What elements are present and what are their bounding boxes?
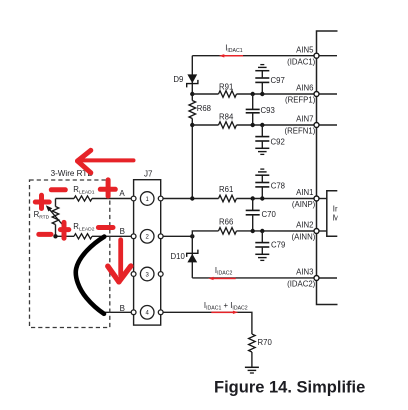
svg-text:R61: R61 [219, 185, 233, 194]
svg-text:AIN1: AIN1 [296, 188, 313, 197]
label I_IDAC1 + I_IDAC2 [204, 301, 248, 311]
annotation red plus left of RLEAD2 [60, 222, 68, 238]
ground above C78 [255, 169, 269, 175]
label node B [120, 227, 125, 236]
pin AIN3 [287, 268, 319, 289]
label C70 [262, 210, 277, 219]
capacitor C70 [246, 199, 260, 232]
node junction RTD bottom [53, 234, 57, 238]
label C93 [261, 106, 275, 115]
label R68 [197, 104, 211, 113]
3-wire RTD dashed box [30, 180, 110, 328]
ground below R70 [245, 367, 259, 373]
svg-text:(IDAC1): (IDAC1) [287, 57, 316, 66]
node junction bus/AIN1 row [190, 196, 194, 200]
J7 pin 3 [131, 267, 163, 281]
label R61 [219, 185, 233, 194]
J7 pin 4 [131, 306, 163, 320]
node junctions C columns AIN1 row [251, 196, 265, 200]
svg-text:J7: J7 [144, 170, 153, 179]
svg-text:B: B [120, 304, 125, 313]
wire AIN6 row [192, 93, 314, 95]
resistor RLEAD1 [74, 196, 92, 201]
wire pin4 row left (B bottom) [103, 311, 134, 313]
label D10 [171, 252, 186, 261]
diode D9 [187, 74, 198, 87]
wire R70 to ground [251, 352, 253, 367]
svg-text:(REFP1): (REFP1) [285, 96, 316, 105]
node junctions C columns AIN2 row [251, 229, 265, 233]
label R91 [219, 83, 233, 92]
resistor R66 [219, 228, 237, 235]
capacitor C97 [255, 71, 269, 94]
wire IDAC1 top horizontal [192, 55, 314, 57]
svg-text:AIN6: AIN6 [296, 84, 313, 93]
annotation black curve (B to B link) [76, 237, 105, 314]
svg-text:IIDAC1 + IIDAC2: IIDAC1 + IIDAC2 [204, 301, 248, 311]
annotation red down arrow at J7 pin3 [108, 240, 131, 282]
label internal mux [333, 205, 340, 223]
label RLEAD1 [73, 185, 94, 195]
svg-text:RRTD: RRTD [34, 210, 50, 220]
annotation red minus near RLEAD1 [51, 187, 65, 192]
svg-text:C92: C92 [271, 138, 285, 147]
svg-text:IIDAC1: IIDAC1 [225, 44, 243, 54]
label R66 [219, 217, 233, 226]
wire AIN1 row left segment [56, 198, 134, 200]
svg-text:AIN5: AIN5 [296, 45, 314, 54]
node junctions C columns AIN7 row [251, 123, 265, 127]
capacitor C93 [246, 94, 260, 125]
wire RRTD bottom [55, 225, 57, 237]
annotation red plus near RRTD top [35, 195, 49, 208]
connector J7 body [134, 180, 161, 325]
svg-text:M: M [333, 213, 340, 222]
red current arrow IDAC2 [208, 277, 236, 280]
svg-text:RLEAD2: RLEAD2 [73, 222, 94, 232]
label I_IDAC2 [215, 266, 233, 276]
label C78 [271, 181, 285, 190]
svg-text:Figure 14. Simplifie: Figure 14. Simplifie [214, 378, 365, 396]
svg-text:AIN3: AIN3 [296, 268, 313, 277]
resistor R68 [189, 101, 196, 119]
svg-text:C70: C70 [262, 210, 277, 219]
resistor RLEAD2 [74, 234, 92, 239]
pin AIN1 [292, 188, 319, 209]
label I_IDAC1 [225, 44, 243, 54]
pin AIN2 [291, 221, 319, 242]
node junction AIN6 row / bus [190, 92, 194, 96]
label C79 [271, 241, 285, 250]
red current arrow IDAC1+IDAC2 [211, 311, 238, 314]
pin stub AIN7 [317, 124, 338, 126]
resistor R91 [219, 91, 237, 98]
pin stub AIN3 [317, 277, 338, 279]
wire riser to R66 row [192, 231, 218, 236]
pin stub AIN6 [317, 93, 338, 95]
variable arrow RRTD [46, 205, 64, 226]
svg-text:R84: R84 [219, 113, 234, 122]
diode D10 [187, 250, 198, 263]
svg-text:D9: D9 [173, 75, 183, 84]
label C97 [271, 76, 285, 85]
pin stub AIN5 [317, 55, 338, 57]
svg-text:R91: R91 [219, 83, 233, 92]
wire AIN1 row right segment [161, 198, 314, 200]
svg-text:AIN7: AIN7 [296, 115, 313, 124]
capacitor C78 [255, 175, 269, 198]
wire D10 branch vertical [191, 236, 193, 278]
svg-text:AIN2: AIN2 [296, 221, 313, 230]
resistor RRTD [52, 207, 59, 225]
label 3-Wire RTD [51, 169, 94, 178]
label RRTD [34, 210, 50, 220]
wire pin2 to bus junction [161, 235, 193, 237]
wire AIN7 row [192, 124, 314, 126]
svg-text:R68: R68 [197, 104, 211, 113]
label node A [119, 189, 125, 198]
svg-text:(REFN1): (REFN1) [285, 127, 316, 136]
node junction AIN7 row / bus [190, 123, 194, 127]
ground below C79 [255, 254, 269, 260]
svg-text:R70: R70 [258, 338, 273, 347]
node junctions C columns AIN6 row [251, 92, 265, 96]
resistor R70 [249, 334, 256, 352]
annotation red arrow left (top) [78, 150, 134, 172]
label B bottom [120, 304, 125, 313]
label R84 [219, 113, 234, 122]
wire vertical bus left [191, 56, 193, 199]
svg-text:(IDAC2): (IDAC2) [287, 280, 316, 289]
label J7 [144, 170, 153, 179]
capacitor C79 [255, 231, 269, 254]
annotation red plus at node A [100, 180, 115, 196]
pin AIN5 [287, 45, 319, 66]
J7 pin 2 [131, 230, 163, 244]
internal mux box [317, 191, 338, 237]
svg-text:In: In [333, 205, 340, 214]
J7 pin 1 [131, 192, 163, 206]
svg-text:A: A [119, 189, 125, 198]
svg-text:C78: C78 [271, 181, 285, 190]
svg-text:(AINP): (AINP) [292, 200, 316, 209]
wire pin4 row right to R70 corner [161, 312, 252, 334]
red current arrow IDAC1 [219, 54, 243, 57]
pin AIN7 [285, 115, 319, 136]
node junction pin2/D10 [190, 234, 194, 238]
figure caption [214, 378, 365, 396]
wire IDAC2 row [192, 277, 314, 279]
svg-text:R66: R66 [219, 217, 233, 226]
label D9 [173, 75, 183, 84]
svg-text:B: B [120, 227, 125, 236]
wire AIN2 row right [237, 230, 315, 232]
annotation red minus left of RLEAD2 [39, 232, 51, 237]
pin AIN6 [285, 84, 319, 105]
svg-text:RLEAD1: RLEAD1 [73, 185, 94, 195]
capacitor C92 [255, 125, 269, 148]
svg-text:C79: C79 [271, 241, 285, 250]
svg-text:D10: D10 [171, 252, 186, 261]
ground above C97 [255, 65, 269, 71]
label R70 [258, 338, 273, 347]
svg-text:C97: C97 [271, 76, 285, 85]
annotation red minus right of RLEAD2 [98, 225, 113, 230]
svg-text:(AINN): (AINN) [291, 233, 315, 242]
wire RTD top corner [55, 199, 57, 207]
ground below C92 [255, 148, 269, 154]
wire pin2 row (B to J7) [56, 235, 134, 237]
svg-text:IIDAC2: IIDAC2 [215, 266, 233, 276]
resistor R84 [219, 122, 237, 129]
svg-text:C93: C93 [261, 106, 275, 115]
resistor R61 [219, 195, 237, 202]
label C92 [271, 138, 285, 147]
IC block edge [317, 31, 338, 305]
label RLEAD2 [73, 222, 94, 232]
